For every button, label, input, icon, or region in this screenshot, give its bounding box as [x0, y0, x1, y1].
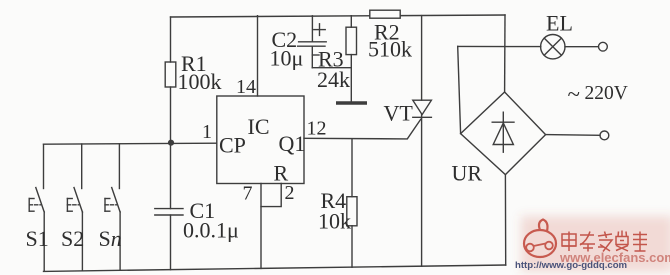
svg-text:CP: CP — [219, 133, 246, 158]
svg-text:100k: 100k — [178, 69, 222, 94]
svg-text:12: 12 — [307, 118, 327, 140]
svg-text:~: ~ — [568, 82, 580, 107]
switch S1 — [29, 144, 44, 271]
wire IC pin 12 to gate — [304, 119, 421, 139]
resistor R2 — [370, 10, 400, 18]
svg-text:7: 7 — [243, 183, 253, 205]
thyristor VT — [413, 100, 432, 117]
svg-text:S1: S1 — [26, 226, 49, 251]
node top terminal — [599, 42, 608, 51]
lamp EL — [541, 35, 565, 59]
watermark red wash — [521, 216, 670, 272]
wire bus to UR top vertex — [504, 15, 506, 92]
svg-text:http://www.go-gddq.com: http://www.go-gddq.com — [515, 260, 627, 271]
resistor R3 — [346, 27, 357, 54]
wire C2 bottom to R3 bottom — [312, 67, 351, 69]
resistor R4 — [347, 197, 357, 226]
svg-text:S2: S2 — [61, 226, 84, 251]
wire R3 top lead — [350, 16, 352, 28]
thyristor VT anode wire — [421, 16, 423, 101]
wire R1 bottom lead to C1 — [170, 87, 172, 209]
capacitor C2 — [298, 16, 327, 68]
svg-text:UR: UR — [452, 161, 483, 186]
wire EL corner to UR left vertex — [458, 46, 461, 133]
wire R3 bottom lead — [350, 55, 352, 103]
svg-text:510k: 510k — [368, 37, 412, 62]
wire R4 bottom lead — [351, 226, 353, 267]
switch S2 — [67, 144, 82, 271]
wire R1 top lead — [170, 17, 172, 62]
wire bottom rail — [44, 265, 506, 271]
switch Sn — [105, 144, 120, 270]
bridge rectifier UR — [461, 92, 546, 175]
wire EL to top terminal — [565, 46, 598, 48]
wire IC pin 14 lead — [257, 16, 259, 96]
diode inside UR — [492, 112, 514, 152]
svg-text:10μ: 10μ — [270, 46, 304, 71]
svg-text:24k: 24k — [317, 67, 350, 92]
watermark logo — [524, 220, 556, 258]
svg-text:Sn: Sn — [99, 226, 122, 251]
svg-text:VT: VT — [384, 101, 414, 126]
wire UR bottom lead — [504, 175, 506, 265]
wire top supply bus — [171, 15, 506, 17]
svg-text:R: R — [274, 161, 289, 186]
watermark brand glyphs — [562, 231, 647, 252]
svg-text:IC: IC — [248, 114, 270, 139]
resistor R1 — [165, 62, 176, 87]
wire UR right vertex to bottom terminal — [546, 134, 600, 137]
svg-text:14: 14 — [236, 76, 256, 98]
wire R4 top lead — [351, 139, 353, 197]
capacitor C1 — [155, 209, 183, 270]
node bottom terminal — [600, 131, 609, 140]
svg-text:220V: 220V — [585, 83, 628, 104]
wire IC pin 2 lead — [261, 184, 281, 207]
ground — [338, 101, 365, 105]
svg-text:Q1: Q1 — [279, 131, 306, 156]
wire IC pin 7 lead — [260, 184, 262, 269]
thyristor VT cathode wire — [421, 115, 423, 267]
wire EL feed horizontal — [458, 45, 541, 47]
svg-text:EL: EL — [546, 11, 573, 36]
op-amp IC box — [217, 96, 304, 184]
svg-text:0.0.1μ: 0.0.1μ — [183, 218, 239, 243]
svg-text:10k: 10k — [318, 209, 351, 234]
svg-text:1: 1 — [202, 121, 212, 143]
wire switch bus to IC pin 1 — [44, 143, 217, 144]
node junction dot R1/C1/CP — [168, 140, 174, 146]
